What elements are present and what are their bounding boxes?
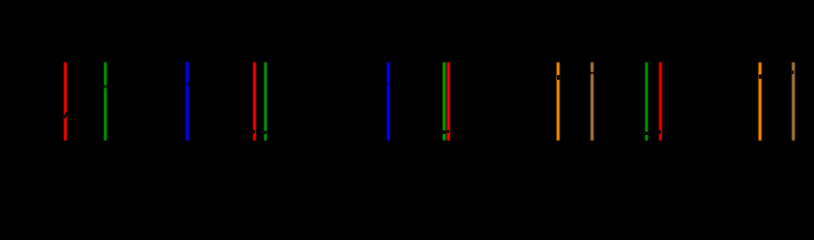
notch on line 3	[187, 82, 190, 86]
notch on line 14	[792, 71, 794, 75]
line 10 brown	[591, 62, 594, 140]
line 12 red	[659, 62, 662, 140]
label notches (black glyph fragments crossing the lines)	[64, 71, 794, 135]
notch on line 1	[65, 112, 67, 115]
notch on line 9	[557, 75, 560, 80]
line 14 brown	[792, 62, 795, 140]
notch on line 11	[645, 132, 648, 135]
line 9 orange	[557, 62, 560, 140]
notch on line 5	[264, 131, 267, 134]
notch on line 12	[659, 130, 661, 133]
line 7 green	[443, 62, 446, 140]
line 13 orange	[759, 62, 762, 140]
line 6 blue	[387, 62, 390, 140]
line 2 green	[104, 62, 107, 140]
line 1 red	[64, 62, 67, 140]
notch on line 7	[442, 130, 445, 134]
line 11 green	[645, 62, 648, 140]
notch on line 6	[387, 81, 390, 86]
line 4 red	[253, 62, 256, 140]
notch on line 10	[590, 71, 592, 75]
notch on line 4	[253, 130, 255, 133]
notch on line 13	[759, 75, 762, 79]
notch on line 2	[104, 85, 108, 88]
line 8 red	[447, 62, 450, 140]
line 5 green	[264, 62, 267, 140]
line 3 blue	[186, 62, 189, 140]
notch on line 8	[447, 130, 449, 133]
